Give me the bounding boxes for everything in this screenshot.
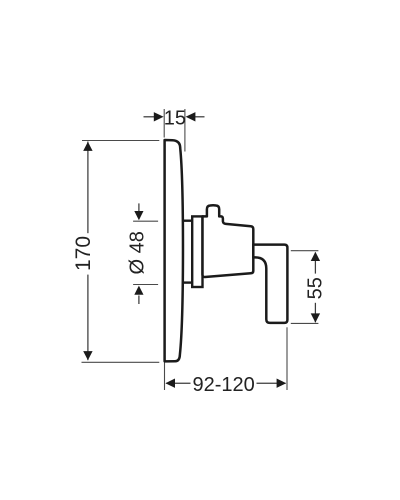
svg-text:92-120: 92-120	[192, 374, 254, 396]
svg-text:Ø 48: Ø 48	[127, 231, 149, 274]
svg-text:15: 15	[164, 107, 186, 129]
svg-text:170: 170	[72, 236, 95, 271]
svg-text:55: 55	[304, 277, 326, 299]
